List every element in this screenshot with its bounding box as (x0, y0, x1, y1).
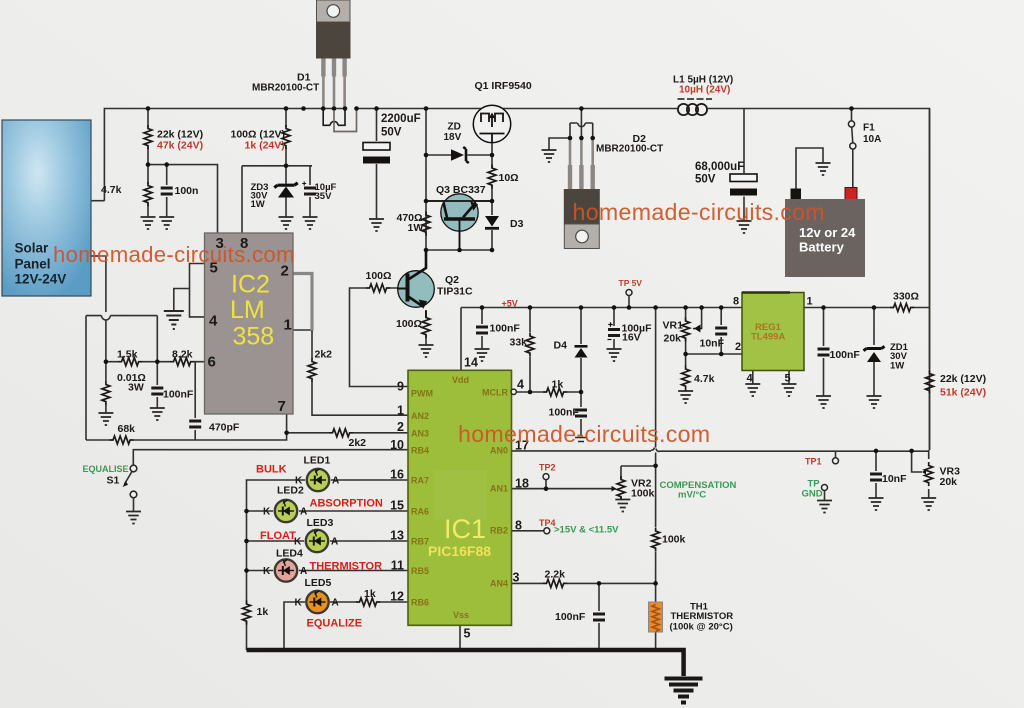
svg-text:MCLR: MCLR (482, 388, 508, 398)
svg-text:A: A (332, 476, 339, 487)
svg-text:3: 3 (513, 571, 520, 585)
svg-text:100Ω: 100Ω (366, 270, 392, 282)
svg-text:1k (24V): 1k (24V) (245, 140, 285, 152)
svg-text:TL499A: TL499A (751, 332, 785, 343)
svg-text:TP4: TP4 (539, 518, 556, 528)
svg-text:Q3 BC337: Q3 BC337 (436, 184, 486, 196)
svg-text:10: 10 (390, 438, 404, 452)
svg-text:10Ω: 10Ω (499, 172, 519, 184)
svg-text:1: 1 (807, 296, 813, 308)
svg-text:5: 5 (464, 627, 471, 641)
svg-text:1: 1 (397, 404, 404, 418)
svg-text:1.5k: 1.5k (117, 349, 138, 361)
svg-text:F1: F1 (863, 123, 875, 134)
svg-text:100Ω: 100Ω (396, 318, 422, 330)
svg-text:K: K (295, 598, 303, 609)
svg-text:470pF: 470pF (209, 422, 240, 434)
svg-text:51k (24V): 51k (24V) (940, 387, 986, 399)
svg-text:16V: 16V (622, 332, 641, 344)
svg-text:Panel: Panel (15, 257, 51, 272)
svg-text:1k: 1k (364, 588, 376, 600)
svg-text:Solar: Solar (15, 241, 50, 256)
svg-text:1k: 1k (552, 379, 564, 391)
svg-text:1W: 1W (408, 222, 424, 234)
svg-text:Q2: Q2 (445, 274, 459, 286)
svg-text:1: 1 (284, 317, 292, 334)
svg-text:100nF: 100nF (555, 611, 586, 623)
svg-text:FLOAT: FLOAT (260, 530, 296, 542)
svg-text:20k: 20k (940, 476, 958, 488)
svg-text:TP 5V: TP 5V (619, 278, 643, 288)
svg-text:K: K (263, 566, 271, 577)
svg-text:AN1: AN1 (490, 484, 508, 494)
svg-text:100k: 100k (631, 488, 655, 500)
svg-text:14: 14 (464, 356, 478, 370)
svg-text:6: 6 (208, 354, 216, 371)
svg-text:mV/°C: mV/°C (678, 490, 706, 501)
svg-text:D4: D4 (554, 340, 568, 352)
svg-text:TP1: TP1 (805, 457, 822, 467)
svg-text:1W: 1W (890, 361, 904, 372)
svg-text:IC1: IC1 (444, 514, 486, 544)
svg-text:20k: 20k (664, 333, 682, 345)
svg-text:35V: 35V (315, 191, 333, 202)
svg-text:RB7: RB7 (411, 537, 429, 547)
svg-text:EQUALISE: EQUALISE (83, 464, 129, 474)
svg-text:Vss: Vss (453, 610, 469, 620)
svg-text:Q1 IRF9540: Q1 IRF9540 (475, 80, 532, 92)
svg-text:12V-24V: 12V-24V (15, 272, 67, 287)
svg-text:10µH (24V): 10µH (24V) (679, 85, 730, 96)
svg-text:2: 2 (735, 341, 741, 353)
svg-text:D3: D3 (510, 218, 524, 230)
svg-text:1W: 1W (251, 199, 265, 210)
svg-text:4: 4 (517, 378, 524, 392)
svg-text:100nF: 100nF (163, 389, 194, 401)
svg-text:22k (12V): 22k (12V) (940, 373, 986, 385)
svg-text:33k: 33k (510, 337, 528, 349)
svg-text:18: 18 (515, 477, 529, 491)
svg-text:8: 8 (515, 519, 522, 533)
svg-text:K: K (263, 507, 271, 518)
svg-text:8: 8 (733, 296, 739, 308)
svg-text:RB6: RB6 (411, 598, 429, 608)
svg-text:RA7: RA7 (411, 476, 429, 486)
svg-text:330Ω: 330Ω (893, 291, 919, 303)
svg-text:47k (24V): 47k (24V) (157, 140, 203, 152)
svg-text:RB5: RB5 (411, 566, 429, 576)
svg-text:THERMISTOR: THERMISTOR (671, 611, 734, 622)
svg-text:12: 12 (390, 590, 404, 604)
svg-text:S1: S1 (107, 475, 120, 487)
svg-text:LED5: LED5 (305, 577, 332, 589)
svg-text:RA6: RA6 (411, 507, 429, 517)
svg-text:A: A (300, 507, 307, 518)
svg-text:4.7k: 4.7k (694, 373, 715, 385)
svg-text:2.2k: 2.2k (545, 569, 566, 581)
svg-text:7: 7 (278, 398, 286, 415)
svg-text:IC2: IC2 (231, 271, 270, 299)
svg-text:Vdd: Vdd (452, 375, 469, 385)
svg-text:Battery: Battery (799, 240, 845, 255)
svg-text:11: 11 (391, 559, 404, 573)
svg-text:68k: 68k (118, 423, 136, 435)
svg-text:(100k @ 20°C): (100k @ 20°C) (670, 622, 733, 633)
svg-text:A: A (332, 598, 339, 609)
svg-text:AN2: AN2 (411, 411, 429, 421)
svg-text:PWM: PWM (411, 389, 433, 399)
svg-text:MBR20100-CT: MBR20100-CT (252, 83, 319, 94)
svg-text:TP2: TP2 (539, 463, 556, 473)
svg-text:2k2: 2k2 (349, 437, 367, 449)
svg-text:10A: 10A (863, 134, 881, 145)
svg-text:12v or 24: 12v or 24 (799, 225, 856, 240)
svg-text:2k2: 2k2 (315, 349, 333, 361)
svg-text:50V: 50V (381, 127, 402, 139)
svg-text:68,000uF: 68,000uF (695, 161, 744, 173)
svg-text:18V: 18V (444, 132, 462, 143)
svg-text:100k: 100k (662, 534, 686, 546)
svg-text:PIC16F88: PIC16F88 (428, 543, 491, 559)
svg-text:EQUALIZE: EQUALIZE (307, 618, 363, 630)
svg-text:16: 16 (390, 468, 404, 482)
svg-text:5: 5 (785, 373, 791, 385)
svg-text:K: K (295, 476, 303, 487)
svg-text:10nF: 10nF (882, 473, 907, 485)
svg-text:10nF: 10nF (700, 338, 725, 350)
svg-text:4.7k: 4.7k (101, 184, 122, 196)
svg-text:RB4: RB4 (411, 446, 429, 456)
svg-text:100nF: 100nF (490, 323, 521, 335)
svg-text:15: 15 (390, 499, 404, 513)
svg-text:LED1: LED1 (304, 455, 331, 467)
svg-text:LED3: LED3 (307, 517, 334, 529)
svg-text:THERMISTOR: THERMISTOR (310, 561, 383, 573)
svg-text:RB2: RB2 (490, 526, 508, 536)
svg-text:1k: 1k (257, 606, 269, 618)
svg-text:100nF: 100nF (549, 407, 580, 419)
svg-text:358: 358 (233, 323, 275, 351)
svg-text:AN3: AN3 (411, 429, 429, 439)
svg-text:ZD: ZD (448, 122, 461, 133)
svg-text:100nF: 100nF (830, 349, 861, 361)
svg-text:9: 9 (397, 380, 404, 394)
svg-text:AN4: AN4 (490, 579, 508, 589)
svg-text:GND: GND (802, 489, 823, 500)
svg-text:VR1: VR1 (663, 320, 684, 332)
svg-text:LED4: LED4 (276, 548, 303, 560)
svg-text:50V: 50V (695, 174, 716, 186)
svg-text:A: A (300, 566, 307, 577)
svg-text:100n: 100n (175, 185, 199, 197)
svg-text:4: 4 (209, 313, 218, 330)
svg-text:TIP31C: TIP31C (437, 286, 473, 298)
svg-text:8.2k: 8.2k (172, 349, 193, 361)
svg-text:3W: 3W (128, 382, 144, 394)
svg-text:A: A (331, 537, 338, 548)
svg-text:BULK: BULK (256, 464, 287, 476)
svg-text:ABSORPTION: ABSORPTION (310, 498, 383, 510)
svg-text:2: 2 (397, 420, 404, 434)
svg-text:>15V & <11.5V: >15V & <11.5V (554, 525, 619, 536)
svg-text:LM: LM (230, 296, 265, 324)
svg-text:4: 4 (747, 373, 754, 385)
svg-text:+5V: +5V (502, 299, 518, 309)
svg-text:MBR20100-CT: MBR20100-CT (596, 144, 663, 155)
svg-text:2200uF: 2200uF (381, 113, 421, 125)
svg-text:13: 13 (390, 529, 404, 543)
